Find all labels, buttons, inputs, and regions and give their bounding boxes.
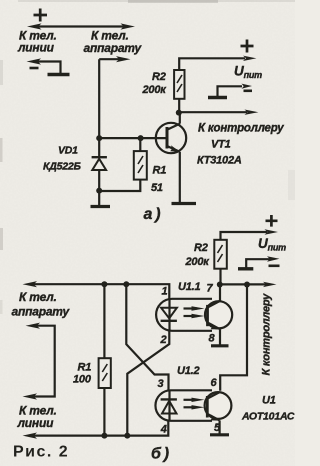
svg-text:R1: R1 (78, 362, 92, 374)
wire cross top-bus to pin3 (126, 284, 168, 390)
svg-text:КД522Б: КД522Б (43, 161, 82, 173)
wire pin 8 emitter down (219, 329, 221, 345)
svg-text:1: 1 (162, 286, 168, 298)
pin 6 label (211, 377, 218, 389)
net label K kontrolleru vertical (261, 293, 273, 376)
svg-text:100: 100 (73, 374, 92, 386)
svg-text:а): а) (144, 206, 161, 223)
net label Upit (258, 236, 286, 253)
resistor R2 (174, 58, 245, 112)
optocoupler U1.2 body (155, 390, 212, 421)
label a) (144, 206, 161, 223)
ground bar left (91, 205, 111, 208)
phototransistor U1.1 (205, 301, 232, 330)
resistor R2 value label (142, 71, 168, 96)
svg-text:R2: R2 (194, 242, 208, 254)
svg-text:U1: U1 (262, 395, 276, 407)
wire arrow to controller (179, 110, 259, 115)
LED U1.2 (161, 390, 177, 421)
svg-text:3: 3 (158, 378, 164, 390)
label b) (151, 446, 169, 463)
phototransistor U1.2 (205, 392, 232, 421)
svg-text:линии: линии (17, 416, 55, 430)
svg-text:R2: R2 (152, 71, 166, 83)
svg-text:2: 2 (160, 334, 167, 346)
node junction dot cross wire bottom (124, 433, 130, 439)
wire bottom bus with arrow (23, 421, 169, 439)
optocoupler U1.1 body (156, 299, 212, 331)
resistor R1 (99, 138, 147, 191)
node junction dot R2 pin7 (217, 282, 223, 288)
optocoupler U1.1 label (178, 281, 201, 293)
node junction dot pin6 branch (244, 282, 250, 288)
transistor VT1 (156, 113, 186, 203)
wire bracket to telephone apparatus (23, 323, 55, 400)
svg-text:К контроллеру: К контроллеру (261, 293, 273, 376)
node junction dot R1 top (101, 281, 107, 287)
wire cross pin2 to bottom-bus (127, 331, 169, 436)
wire arrow to telephone apparatus (99, 56, 130, 62)
svg-text:Рис. 2: Рис. 2 (13, 444, 69, 461)
light arrows U1.1 (184, 306, 205, 318)
svg-text:4: 4 (160, 424, 167, 436)
node K tel apparatu label (12, 290, 71, 319)
node K tel apparatu label (84, 29, 143, 56)
plus label Upit (266, 215, 278, 227)
svg-text:VT1: VT1 (211, 139, 231, 151)
ground bar emitter (172, 202, 197, 205)
svg-text:КТ3102А: КТ3102А (197, 155, 242, 167)
LED U1.1 (161, 299, 177, 331)
ground bar pin 5 (210, 433, 229, 436)
wire top rail with two arrows (27, 23, 135, 29)
pin 2 label (160, 334, 167, 346)
svg-text:200к: 200к (142, 84, 168, 96)
svg-text:К контроллеру: К контроллеру (198, 123, 284, 135)
diode VD1 (92, 157, 107, 170)
wire top bus with arrow (23, 281, 170, 299)
ground bar pin 8 (211, 344, 229, 347)
resistor R2 (214, 232, 267, 285)
svg-text:200к: 200к (185, 256, 211, 268)
svg-text:аппарату: аппарату (84, 41, 143, 55)
resistor R1 (99, 284, 111, 435)
svg-text:R1: R1 (153, 165, 167, 177)
plus terminal top-left (34, 9, 48, 22)
diode VD1 label (43, 145, 82, 173)
node junction dot R1 top (138, 135, 144, 141)
svg-text:VD1: VD1 (58, 145, 78, 157)
pin 5 label (214, 422, 221, 434)
node junction dot cross wire top (123, 281, 129, 287)
wire arrow to controller (220, 282, 277, 287)
pin 3 label (158, 378, 164, 390)
svg-text:б): б) (151, 446, 169, 463)
minus power terminal (238, 256, 280, 269)
pin 8 label (209, 333, 216, 345)
wire arrow to +Upit (243, 56, 256, 61)
net label Upit (234, 64, 262, 81)
transistor VT1 label (197, 139, 242, 167)
node K tel linii label (17, 29, 57, 55)
wire main left vertical (98, 59, 100, 206)
wire arrow to +Upit (265, 229, 279, 234)
svg-text:U1.2: U1.2 (177, 365, 200, 377)
svg-text:51: 51 (151, 182, 163, 194)
node K tel linii label (17, 404, 57, 431)
node junction dot collector (176, 110, 182, 116)
pin 1 label (162, 286, 168, 298)
resistor R2 value label (185, 242, 211, 268)
svg-text:линии: линии (17, 41, 55, 55)
wire pin 5 emitter down (219, 420, 221, 433)
pin 4 label (160, 424, 167, 436)
wire pin 6 jog (220, 285, 247, 391)
svg-text:аппарату: аппарату (12, 305, 71, 319)
svg-text:U1.1: U1.1 (178, 281, 201, 293)
svg-text:АОТ101АС: АОТ101АС (241, 411, 295, 423)
node junction dot bottom (96, 188, 102, 194)
minus terminal of telephone line (27, 58, 70, 74)
wire pin 7 to controller line (219, 285, 221, 301)
light arrows U1.2 (184, 398, 205, 410)
node junction dot R1 bottom (101, 433, 107, 439)
resistor R1 value label (151, 165, 166, 195)
optocoupler U1 type label (241, 395, 295, 423)
svg-text:К тел.: К тел. (19, 290, 57, 304)
minus power terminal (208, 84, 252, 98)
plus label Upit (241, 40, 254, 53)
wire base (99, 137, 166, 139)
node junction dot base (96, 135, 102, 141)
pin 7 label (207, 283, 214, 295)
caption Ris. 2 (13, 444, 69, 461)
resistor R1 value label (73, 362, 92, 386)
net label K kontrolleru (198, 123, 284, 135)
optocoupler U1.2 label (177, 365, 200, 377)
